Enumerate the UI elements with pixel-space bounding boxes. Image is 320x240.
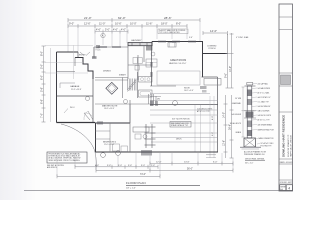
spa diamond	[106, 82, 118, 94]
svg-text:13'-6" x 15'-0": 13'-6" x 15'-0"	[104, 108, 115, 110]
entry dark tag	[92, 56, 97, 59]
svg-text:4" CONC. SLAB: 4" CONC. SLAB	[236, 36, 249, 39]
svg-text:10'-0" x 9'-6": 10'-0" x 9'-6"	[184, 90, 194, 92]
entry jog wall	[93, 47, 95, 58]
left vertical dimension line	[42, 46, 46, 122]
right dim labels	[223, 66, 232, 146]
exterior wall: garage top	[57, 51, 79, 53]
svg-text:4: 4	[288, 186, 290, 190]
exterior wall: garage west	[56, 52, 58, 123]
master door swing	[84, 113, 90, 120]
detail mid ledger line	[244, 110, 256, 112]
entry door swings	[80, 52, 84, 56]
bottom dim row 2 (left wing)	[75, 165, 158, 169]
svg-text:6'-6": 6'-6"	[40, 99, 44, 104]
bottom overall dim line	[57, 174, 160, 178]
svg-text:4'-6": 4'-6"	[113, 29, 118, 32]
wc tag circle	[124, 100, 128, 104]
porch outline	[227, 34, 229, 54]
svg-text:3/4" = 1'-0": 3/4" = 1'-0"	[245, 162, 254, 164]
garage south wall	[57, 122, 96, 124]
entry closet wall	[74, 58, 76, 67]
svg-text:10'-0": 10'-0"	[130, 22, 137, 26]
svg-text:2x8 LEDGER: 2x8 LEDGER	[231, 114, 241, 116]
hall tag circle	[86, 97, 90, 101]
svg-text:2'-6": 2'-6"	[151, 165, 155, 167]
svg-text:3'-0": 3'-0"	[118, 165, 122, 167]
west wing wall	[95, 123, 97, 153]
svg-text:DINING: DINING	[103, 71, 111, 73]
title block sheet number boxes	[280, 185, 286, 191]
window seat rect right	[204, 79, 221, 86]
bath cluster walls	[127, 46, 129, 79]
bottom sheet border line	[24, 190, 293, 192]
svg-text:5'-6": 5'-6"	[40, 87, 44, 92]
stairs block left of deck	[145, 124, 156, 148]
svg-text:VAULTED CLG 12'-0": VAULTED CLG 12'-0"	[169, 62, 187, 65]
paper background	[0, 0, 300, 200]
svg-text:21'-4" x 23'-6": 21'-4" x 23'-6"	[71, 89, 82, 91]
svg-text:AT 16" O.C. TYP.: AT 16" O.C. TYP.	[197, 110, 210, 113]
svg-text:DOWLING-HART RESIDENCE: DOWLING-HART RESIDENCE	[282, 115, 286, 157]
hall wall	[95, 77, 128, 79]
svg-text:11'-6": 11'-6"	[146, 22, 152, 26]
svg-text:TYP. U.N.O. SEE NOTES: TYP. U.N.O. SEE NOTES	[159, 32, 180, 34]
svg-text:14'-6": 14'-6"	[184, 161, 190, 163]
garage interior east wall	[92, 79, 94, 123]
master door dark blob	[97, 121, 103, 124]
den top wall window blobs	[98, 46, 107, 48]
extension lines below house	[57, 153, 233, 176]
left dim labels (rotated)	[40, 51, 44, 118]
svg-text:SIZES WITH MFR. PRIOR TO FRAMI: SIZES WITH MFR. PRIOR TO FRAMING.	[49, 159, 81, 162]
svg-text:5'-0": 5'-0"	[105, 29, 110, 32]
wic door arc	[88, 111, 93, 120]
window tag circle top	[101, 33, 105, 37]
svg-text:ENTRY: ENTRY	[79, 55, 86, 57]
detail top cap	[247, 83, 253, 85]
svg-text:6'-6": 6'-6"	[212, 132, 214, 136]
bottom dim row 1 (deck)	[150, 162, 233, 166]
svg-text:PRESSURE TREATED D.F.: PRESSURE TREATED D.F.	[244, 153, 265, 156]
svg-text:14'-0": 14'-0"	[210, 29, 217, 33]
curved leader from notes box	[61, 124, 97, 167]
svg-text:10'-6": 10'-6"	[115, 22, 122, 26]
svg-text:PORCH: PORCH	[209, 48, 216, 50]
title block outer frame	[279, 4, 293, 191]
svg-text:9'-6": 9'-6"	[189, 37, 193, 39]
interior stair bars	[149, 94, 157, 104]
svg-text:8'-0": 8'-0"	[176, 22, 181, 26]
fireplace	[168, 43, 176, 48]
svg-text:FLOOR PLAN: FLOOR PLAN	[126, 181, 146, 185]
closet shelves	[96, 130, 111, 132]
kitchen wall	[150, 85, 176, 87]
nook step line	[150, 96, 161, 98]
notes box lower left	[47, 152, 87, 163]
great room top wall	[152, 41, 203, 43]
svg-text:AND SPECS.: AND SPECS.	[47, 166, 58, 169]
svg-text:LAUNDRY: LAUNDRY	[131, 39, 142, 42]
dark fixture blobs on mid wall	[150, 101, 154, 107]
deck vertical extension lines	[195, 96, 214, 158]
top wall mid segment	[94, 46, 128, 48]
powder room walls	[122, 78, 124, 99]
deck steps bottom	[206, 154, 216, 156]
vanity	[139, 77, 153, 83]
svg-text:11'-0": 11'-0"	[99, 22, 105, 26]
svg-text:12'-0": 12'-0"	[156, 161, 162, 163]
laundry top wall (thick band)	[128, 43, 152, 46]
entry step wall	[77, 52, 79, 58]
mid light lines	[150, 109, 218, 111]
svg-text:9'-6": 9'-6"	[225, 73, 228, 78]
svg-text:18'-0": 18'-0"	[161, 22, 168, 26]
svg-text:3'-0": 3'-0"	[141, 165, 145, 167]
svg-text:6'-0": 6'-0"	[40, 75, 44, 80]
svg-text:7'-0": 7'-0"	[40, 113, 44, 118]
east wall lower	[217, 77, 219, 152]
left extension line	[50, 48, 52, 122]
svg-text:2x8 DECK JOISTS: 2x8 DECK JOISTS	[258, 115, 271, 117]
kitchen corner blobs	[200, 86, 207, 89]
svg-text:6'-0": 6'-0"	[213, 161, 218, 163]
deck plank lines	[151, 132, 217, 134]
svg-text:36" MIN: 36" MIN	[235, 98, 242, 100]
svg-text:FOOTING TYP.: FOOTING TYP.	[261, 146, 273, 148]
svg-text:11'-0" x 12'-6": 11'-0" x 12'-6"	[104, 144, 115, 146]
great room ceiling rect	[157, 71, 200, 85]
title block stamp	[281, 75, 291, 85]
svg-text:HAPPY VALLEY, OREGON: HAPPY VALLEY, OREGON	[290, 134, 293, 157]
nook south light lines	[150, 92, 210, 94]
garage divider wall	[57, 71, 76, 73]
bottom dim row 3	[96, 169, 233, 173]
svg-text:STAIR DETAILS TYP.: STAIR DETAILS TYP.	[171, 124, 189, 127]
svg-text:62'-0": 62'-0"	[118, 16, 126, 20]
top dimension line row 3	[95, 30, 128, 34]
porch dimension line	[203, 31, 228, 35]
wall note box top	[158, 29, 188, 34]
svg-text:A-4: A-4	[280, 188, 283, 191]
svg-text:4'-6": 4'-6"	[95, 165, 99, 167]
step wall laundry to great room	[151, 42, 153, 47]
hallway wall mid	[95, 103, 150, 105]
garage grid light lines	[45, 45, 93, 79]
svg-text:4'-6": 4'-6"	[96, 29, 101, 32]
svg-text:3'-6": 3'-6"	[128, 165, 132, 167]
detail left labels	[230, 98, 242, 134]
detail footing	[244, 138, 256, 147]
svg-text:14'-0": 14'-0"	[229, 66, 232, 72]
master south wall	[95, 122, 130, 124]
svg-text:21'-0": 21'-0"	[84, 16, 92, 20]
svg-text:12345 SE STANLEY CT.: 12345 SE STANLEY CT.	[287, 134, 290, 157]
top dimension line row 2	[68, 24, 187, 28]
svg-text:74'-0": 74'-0"	[140, 174, 146, 176]
svg-text:DECK RAIL DETAIL: DECK RAIL DETAIL	[245, 158, 265, 161]
window tag small rect	[96, 45, 100, 48]
svg-text:JOB NO. 0427: JOB NO. 0427	[280, 182, 292, 184]
tub	[139, 90, 153, 97]
svg-text:1/4" = 1'-0": 1/4" = 1'-0"	[126, 187, 136, 189]
window tag circles bottom	[101, 153, 106, 158]
kitchen corner counter	[146, 59, 157, 67]
svg-text:M.BATH: M.BATH	[119, 74, 126, 77]
svg-text:DATE: 4-18-05: DATE: 4-18-05	[280, 161, 292, 164]
svg-text:3/4" T&G PLYWOOD: 3/4" T&G PLYWOOD	[172, 119, 190, 121]
svg-text:8'-0": 8'-0"	[40, 51, 44, 56]
svg-text:28'-6": 28'-6"	[164, 16, 172, 20]
svg-text:12'-6": 12'-6"	[223, 140, 226, 146]
svg-text:2x6 DECKING W/: 2x6 DECKING W/	[258, 106, 271, 108]
svg-text:DECK: DECK	[176, 139, 182, 141]
east wall upper	[202, 42, 204, 78]
window tag circle mid	[173, 101, 178, 106]
detail ground lines	[240, 146, 261, 148]
corner window dark blob	[146, 46, 153, 51]
vertical extension lines from top dims	[68, 21, 200, 52]
detail left dim line	[242, 87, 245, 137]
garage south wall / wic north	[57, 95, 94, 97]
svg-text:8'-0": 8'-0"	[212, 116, 214, 120]
svg-text:56'-0": 56'-0"	[187, 169, 193, 171]
floor plan title underline	[126, 185, 200, 187]
detail right leaders	[252, 84, 260, 145]
entry stepped walls	[75, 58, 93, 80]
svg-text:3'-6": 3'-6"	[107, 165, 111, 167]
svg-text:9' CLG: 9' CLG	[96, 50, 102, 52]
detail hatched post	[247, 86, 252, 138]
svg-text:5'-0": 5'-0"	[40, 64, 44, 69]
svg-text:GREAT ROOM: GREAT ROOM	[170, 59, 186, 62]
svg-text:SIMPSON PB44 POST: SIMPSON PB44 POST	[258, 129, 275, 131]
mid band wall	[150, 104, 218, 106]
kitchen jog east	[202, 76, 218, 78]
master bath fixtures bottom	[113, 144, 120, 151]
detail post segments	[246, 90, 254, 137]
detail right labels	[258, 82, 275, 147]
right vertical dim lines	[224, 33, 234, 158]
svg-text:W.I.C.: W.I.C.	[70, 107, 76, 109]
note box mid	[170, 122, 191, 128]
title block dividers	[279, 17, 293, 184]
svg-text:9'-0": 9'-0"	[69, 22, 74, 26]
svg-text:12'-6": 12'-6"	[84, 22, 91, 26]
deck/hous e bottom wall	[95, 151, 218, 153]
bedroom2 east wall	[129, 104, 131, 152]
west wall of great room (window band)	[151, 46, 153, 86]
garage step line	[60, 82, 75, 84]
top dimension line row 1	[68, 18, 200, 22]
svg-text:18"x18"x8" CONC.: 18"x18"x8" CONC.	[261, 143, 275, 145]
svg-text:14'-0": 14'-0"	[223, 112, 226, 118]
bath2 fixtures	[133, 127, 149, 132]
svg-text:GARAGE: GARAGE	[70, 85, 80, 88]
svg-text:4'-0": 4'-0"	[121, 29, 126, 32]
stairs	[128, 79, 137, 92]
